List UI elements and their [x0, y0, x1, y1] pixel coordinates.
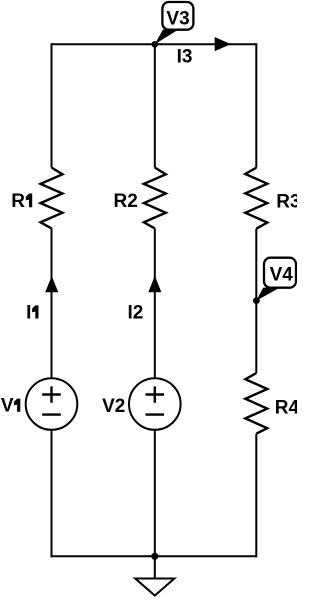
svg-text:R3: R3 — [276, 192, 297, 213]
svg-text:I2: I2 — [128, 303, 144, 324]
svg-text:V3: V3 — [166, 8, 189, 29]
svg-text:I: I — [26, 303, 31, 324]
svg-text:R: R — [11, 191, 25, 212]
svg-text:V4: V4 — [270, 265, 294, 286]
svg-text:V2: V2 — [102, 396, 125, 417]
svg-text:I3: I3 — [177, 47, 193, 68]
svg-text:R4: R4 — [275, 398, 297, 419]
svg-text:V: V — [1, 396, 14, 417]
svg-text:R2: R2 — [114, 191, 138, 212]
